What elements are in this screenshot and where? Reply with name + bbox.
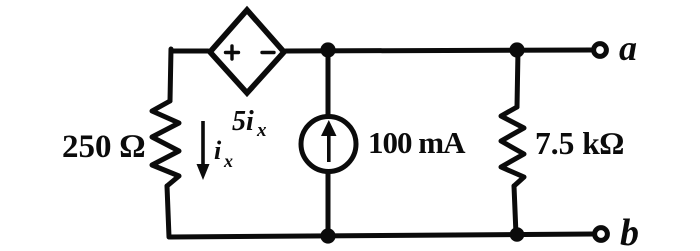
bottom rail wire	[170, 234, 593, 237]
resistor R 250 ohm zigzag	[152, 101, 179, 186]
minus sign inside diamond	[262, 51, 274, 54]
wire right branch bottom stub	[514, 186, 516, 235]
junction node top-right	[509, 42, 524, 57]
svg-text:5i: 5i	[232, 106, 254, 137]
dependent source U1 diamond 5ix	[210, 10, 284, 93]
wire right branch top stub	[517, 50, 518, 107]
svg-text:7.5 kΩ: 7.5 kΩ	[535, 126, 624, 161]
wire current-source top stub	[326, 50, 331, 115]
arrow ix (down)	[197, 121, 210, 180]
plus sign inside diamond	[226, 46, 239, 59]
junction node bottom-center	[320, 228, 335, 243]
wire top-left from corner to diamond left vertex	[171, 49, 208, 54]
terminal b open circle	[595, 228, 608, 241]
terminal a open circle	[594, 44, 607, 57]
svg-text:a: a	[619, 28, 637, 68]
junction node top-center	[320, 42, 335, 57]
svg-text:b: b	[620, 212, 639, 251]
current source I1 circle	[301, 117, 356, 172]
wire top rail from diamond right vertex to terminal a	[286, 50, 592, 51]
wire left bottom (resistor to bottom rail)	[167, 186, 169, 237]
svg-text:x: x	[256, 120, 267, 141]
svg-text:100 mA: 100 mA	[368, 125, 466, 160]
svg-text:i: i	[214, 136, 222, 165]
current source arrow (up)	[321, 120, 337, 162]
svg-text:x: x	[223, 151, 233, 171]
wire current-source bottom stub	[326, 173, 331, 236]
wire left vertical (corner down to resistor top)	[170, 49, 171, 101]
resistor R 7.5k zigzag	[501, 107, 524, 186]
svg-text:250 Ω: 250 Ω	[62, 129, 145, 165]
junction node bottom-right	[510, 227, 525, 242]
